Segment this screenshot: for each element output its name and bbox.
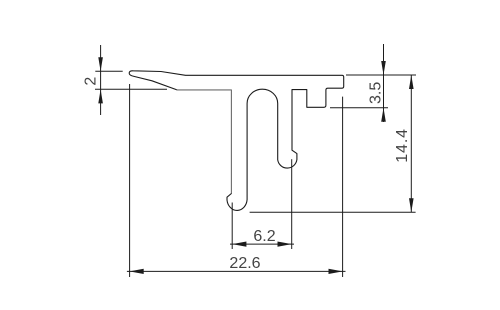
svg-text:3.5: 3.5 (368, 82, 385, 104)
dimension 6.2: left extension line (231, 203, 233, 250)
dimension 3.5: top arrow (381, 61, 386, 75)
dimension 3.5 and 14.4: shared top extension line (346, 74, 416, 76)
svg-text:22.6: 22.6 (229, 255, 260, 272)
dimension 22.6: dimension line (127, 270, 346, 272)
dimension 3.5: bottom arrow (381, 108, 386, 122)
dimension 22.6: left extension line (from flange tip) (129, 84, 131, 277)
dimension 3.5: bottom extension line (330, 107, 388, 109)
dimension 14.4: bottom arrow (409, 198, 414, 212)
svg-text:14.4: 14.4 (394, 128, 411, 163)
dimension 2: bottom arrow (98, 89, 103, 103)
dimension 6.2: dimension line (230, 243, 294, 245)
dimension 2: top arrow (98, 57, 103, 71)
dimension 6.2: right arrow (278, 242, 292, 247)
dimension 2: top extension line (95, 70, 122, 72)
dimension 6.2: right extension line (291, 159, 293, 249)
dimension 3.5: dimension line (383, 44, 385, 122)
dimension 6.2: left arrow (232, 242, 246, 247)
svg-text:2: 2 (83, 77, 100, 86)
dimension 2: bottom extension line (95, 88, 167, 90)
dimension 14.4: bottom extension line (250, 211, 416, 213)
dimension 22.6: right arrow (329, 269, 343, 274)
dimension 22.6: left arrow (130, 269, 144, 274)
dimension 22.6: right extension line (342, 97, 344, 277)
dimension 2: dimension line (100, 45, 102, 115)
dimension 14.4: top arrow (409, 75, 414, 89)
svg-text:6.2: 6.2 (253, 228, 275, 245)
dimension 14.4: dimension line (410, 75, 412, 212)
profile outline (black portion) (129, 71, 344, 211)
profile outline (gray portion: bar bottom and left leg left edge) (177, 90, 232, 194)
